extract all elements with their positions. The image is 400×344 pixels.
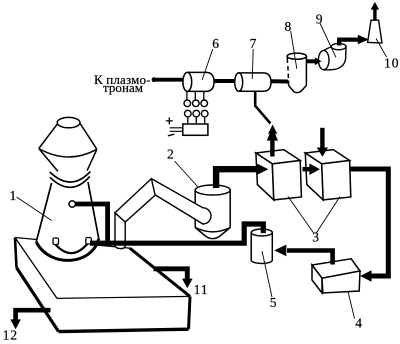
svg-text:6: 6 — [212, 36, 220, 51]
pipe elbow 9 to stack 10 — [337, 35, 369, 46]
svg-text:12: 12 — [3, 328, 19, 343]
leader line 10 — [376, 38, 387, 57]
scrubber box 3a — [256, 150, 302, 200]
plus terminal — [166, 117, 173, 124]
arrow 8 to 9 — [306, 57, 322, 65]
svg-text:11: 11 — [194, 282, 209, 297]
svg-text:5: 5 — [270, 295, 278, 310]
leader line 5 — [262, 251, 272, 297]
cyclone separator 8 — [287, 53, 306, 93]
reactor vessel 7 — [235, 73, 271, 91]
scrubber box 3b — [305, 150, 351, 200]
exhaust stack 10 — [368, 20, 382, 43]
svg-text:9: 9 — [316, 12, 324, 27]
leader lines 3 — [288, 197, 340, 234]
exhaust up arrow — [371, 2, 379, 20]
elbow 9 — [318, 43, 346, 70]
leader line 4 — [348, 292, 355, 319]
leader line 9 — [320, 24, 336, 58]
vessel 5 — [251, 229, 272, 263]
supply wires — [170, 128, 183, 132]
wire arrow 11 — [154, 269, 193, 289]
svg-text:1: 1 — [10, 188, 18, 203]
svg-text:2: 2 — [167, 147, 175, 162]
wire arrow 12 — [10, 310, 50, 329]
pipe cyclone 2 to scrubber 3a — [216, 164, 268, 188]
leader line 6 — [202, 49, 213, 80]
base slab — [15, 238, 190, 332]
drain line from cylinder 7 — [255, 92, 270, 124]
svg-text:3: 3 — [312, 230, 320, 245]
pipe box 4 to vessel 5 — [274, 245, 332, 265]
pipe 7 to 8 — [271, 79, 289, 83]
box 4 — [312, 259, 360, 293]
svg-text:4: 4 — [355, 315, 363, 330]
leader line 8 — [291, 31, 297, 69]
pipe 6 to 7 — [214, 79, 237, 83]
electrode stems under cylinder 6 — [187, 92, 204, 100]
main bottom pipe from furnace to vessel 5 — [90, 224, 263, 243]
pipe stub entering vessel 5 — [261, 226, 266, 233]
svg-text:тронам: тронам — [103, 80, 143, 95]
articulated arm duct — [115, 179, 211, 249]
plasma reactor 6 — [183, 72, 214, 91]
feed line to cylinder 6 — [152, 77, 183, 82]
power supply box — [183, 124, 208, 135]
leader line 2 — [175, 161, 198, 187]
svg-text:7: 7 — [250, 36, 258, 51]
furnace 1 — [36, 117, 99, 260]
leader line 1 — [17, 197, 52, 221]
minus terminal — [168, 134, 174, 136]
electrode circles row 2 — [185, 110, 209, 117]
svg-text:8: 8 — [285, 19, 293, 34]
right loop pipe box 3b to box 4 — [351, 169, 389, 282]
arrow box 3a to 3b — [303, 163, 320, 175]
label text К плазмотронам — [94, 72, 151, 95]
up arrow from box 3a — [267, 127, 278, 156]
svg-text:10: 10 — [384, 55, 400, 70]
port circle on furnace — [69, 201, 75, 207]
electrode circles row 1 — [184, 100, 208, 107]
leader line 7 — [251, 49, 254, 79]
down arrow into box 3b — [317, 128, 328, 157]
stems row2 to power box — [188, 117, 205, 124]
up arrow to drain — [268, 125, 277, 145]
cyclone 2 — [195, 185, 230, 239]
furnace port pipe — [75, 204, 108, 243]
